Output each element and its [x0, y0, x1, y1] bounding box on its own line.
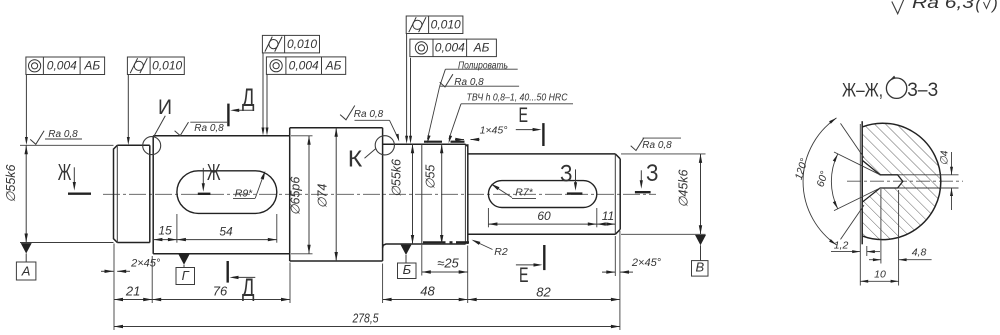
svg-text:R9*: R9* [235, 188, 253, 200]
svg-text:ТВЧ h 0,8–1, 40...50 HRC: ТВЧ h 0,8–1, 40...50 HRC [467, 93, 569, 104]
svg-text:Е: Е [518, 104, 528, 127]
svg-text:∅4: ∅4 [939, 150, 951, 165]
svg-text:1,2: 1,2 [834, 240, 849, 252]
svg-text:Ra 0,8: Ra 0,8 [354, 109, 384, 120]
svg-text:0,004: 0,004 [47, 59, 77, 73]
svg-text:54: 54 [219, 225, 233, 239]
svg-text:0,004: 0,004 [435, 41, 465, 55]
svg-text:К: К [348, 146, 363, 172]
svg-text:∅55: ∅55 [423, 165, 437, 190]
svg-text:Ra 0,8: Ra 0,8 [194, 123, 224, 134]
svg-text:АБ: АБ [473, 41, 490, 55]
svg-text:Д: Д [242, 274, 255, 302]
svg-text:АБ: АБ [325, 58, 342, 72]
svg-text:И: И [158, 96, 172, 119]
svg-text:Ж: Ж [207, 159, 221, 185]
svg-text:76: 76 [213, 284, 228, 299]
svg-text:Ж–Ж,: Ж–Ж, [842, 81, 883, 102]
svg-text:∅45k6: ∅45k6 [677, 169, 691, 207]
svg-text:10: 10 [874, 268, 886, 280]
svg-text:278,5: 278,5 [352, 311, 379, 326]
svg-text:60: 60 [537, 209, 551, 223]
svg-text:0,010: 0,010 [287, 37, 317, 51]
svg-text:З: З [560, 161, 573, 188]
svg-text:Ra 0,8: Ra 0,8 [642, 140, 672, 151]
svg-text:≈25: ≈25 [437, 256, 459, 271]
svg-text:2×45°: 2×45° [130, 258, 161, 270]
svg-text:∅65p6: ∅65p6 [289, 177, 303, 216]
svg-text:∅55k6: ∅55k6 [390, 159, 404, 197]
svg-text:Е: Е [519, 264, 529, 287]
svg-text:Б: Б [403, 262, 412, 277]
svg-text:Полировать: Полировать [458, 60, 508, 71]
svg-text:82: 82 [536, 285, 551, 300]
svg-text:48: 48 [420, 284, 435, 299]
svg-text:А: А [21, 264, 31, 279]
svg-text:АБ: АБ [83, 59, 100, 73]
svg-text:Ra 0,8: Ra 0,8 [48, 129, 78, 140]
svg-text:0,010: 0,010 [431, 18, 461, 32]
svg-text:З–З: З–З [907, 80, 938, 101]
svg-text:4,8: 4,8 [912, 246, 927, 258]
svg-text:R2: R2 [494, 246, 508, 258]
svg-text:Ж: Ж [58, 159, 72, 185]
svg-text:∅55k6: ∅55k6 [4, 164, 18, 202]
svg-text:0,010: 0,010 [152, 59, 182, 73]
svg-text:R7*: R7* [515, 187, 533, 199]
svg-text:): ) [990, 0, 997, 13]
svg-text:1×45°: 1×45° [480, 125, 508, 137]
svg-text:11: 11 [602, 209, 614, 223]
svg-text:15: 15 [158, 224, 172, 238]
svg-text:2×45°: 2×45° [631, 257, 662, 269]
svg-text:В: В [695, 260, 704, 275]
svg-text:З: З [646, 160, 659, 187]
svg-text:Д: Д [242, 84, 255, 112]
svg-text:0,004: 0,004 [289, 58, 319, 72]
svg-text:21: 21 [125, 284, 140, 299]
svg-text:∅74: ∅74 [316, 184, 330, 209]
svg-text:Ra 6,3: Ra 6,3 [912, 0, 975, 12]
svg-text:Г: Г [182, 268, 190, 283]
